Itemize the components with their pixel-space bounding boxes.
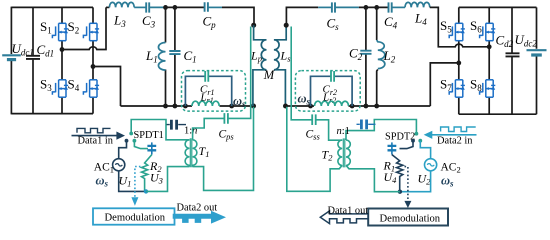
svg-text:T2: T2 bbox=[322, 148, 334, 163]
svg-text:Udc2: Udc2 bbox=[515, 32, 538, 49]
arrow Data2 in bbox=[432, 134, 477, 136]
capacitor modulation right (blue) bbox=[391, 142, 393, 154]
wire: Cr2 loop bbox=[311, 76, 353, 106]
svg-text:L3: L3 bbox=[113, 13, 126, 30]
box Demodulation 1 bbox=[93, 208, 175, 224]
svg-text:SPDT1: SPDT1 bbox=[134, 130, 164, 141]
capacitor Cs bbox=[332, 2, 335, 12]
svg-text:ωs: ωs bbox=[441, 174, 454, 189]
wire: capacitor Cd2 leads bbox=[511, 7, 513, 114]
node: L2 bottom bbox=[374, 104, 379, 109]
svg-text:Data2 in: Data2 in bbox=[437, 135, 473, 146]
wire: T1 secondary top to Cps bbox=[193, 118, 224, 139]
wire: right DC box top rail bbox=[459, 6, 537, 8]
svg-text:S3: S3 bbox=[40, 76, 52, 93]
svg-text:Data1 in: Data1 in bbox=[78, 136, 114, 147]
node: Lp top bbox=[251, 23, 256, 28]
wire: Cp to Lp corner bbox=[208, 6, 222, 8]
node: Ls bottom bbox=[283, 104, 288, 109]
node: SPDT2 contact AC side bbox=[418, 139, 422, 143]
node: R2/bus junction bbox=[144, 189, 148, 193]
svg-text:Demodulation: Demodulation bbox=[380, 213, 441, 224]
svg-text:Cs: Cs bbox=[327, 16, 340, 33]
svg-text:C3: C3 bbox=[142, 13, 156, 30]
capacitor Css bbox=[312, 114, 316, 125]
inductor L2 bbox=[377, 40, 385, 69]
svg-text:S1: S1 bbox=[40, 19, 52, 36]
wire: L2 vertical bbox=[377, 7, 378, 106]
transistor S3 bbox=[52, 80, 68, 97]
arrow Data1 out (outline navy with pulse teeth) bbox=[320, 211, 368, 224]
resistor R2 bbox=[142, 155, 152, 192]
wire: Ls top riser bbox=[286, 7, 318, 25]
capacitor Cd1 bbox=[26, 56, 40, 59]
svg-text:SPDT2: SPDT2 bbox=[385, 131, 415, 142]
wire: Cr1 loop bbox=[185, 76, 231, 106]
transistor S7 bbox=[449, 80, 465, 97]
transformer T2 bbox=[338, 140, 342, 166]
resistor R1 bbox=[392, 155, 403, 192]
wire: L1 vertical bbox=[165, 7, 167, 106]
node: L1 top bbox=[163, 5, 168, 10]
node: SPDT1 throw top bbox=[129, 132, 133, 136]
svg-text:Cd2: Cd2 bbox=[496, 32, 514, 49]
node: C1 bottom bbox=[173, 104, 178, 109]
capacitor C4 bbox=[389, 2, 392, 12]
svg-text:ωs: ωs bbox=[298, 92, 311, 107]
wire: C2 vertical bbox=[365, 7, 367, 106]
inductor Lr1 bbox=[192, 101, 219, 106]
wire: bridge leg 1 (S1/S3) bbox=[61, 7, 63, 113]
inductor L3 bbox=[109, 2, 134, 7]
source AC2 bbox=[425, 159, 437, 171]
battery Udc1 bbox=[2, 54, 21, 56]
svg-text:C1: C1 bbox=[184, 48, 197, 65]
wire: SPDT1 pole net to T1 primary top bbox=[131, 120, 189, 140]
wire: T1 secondary bottom return to Lp bottom bbox=[193, 107, 254, 191]
wire: left DC box bottom rail bbox=[11, 113, 93, 115]
svg-text:S8: S8 bbox=[470, 76, 482, 93]
capacitor Cr1 bbox=[205, 71, 208, 82]
wire: lever to modulation cap bbox=[134, 141, 148, 149]
svg-text:U2: U2 bbox=[418, 172, 432, 187]
svg-text:Lp: Lp bbox=[250, 49, 262, 64]
svg-text:L4: L4 bbox=[414, 11, 427, 28]
dashed box trap 2 bbox=[295, 71, 360, 112]
battery Udc2 bbox=[527, 49, 547, 51]
dashed box trap 1 bbox=[182, 71, 246, 112]
capacitor C1 bbox=[169, 51, 180, 54]
transistor S1 bbox=[52, 23, 68, 40]
node: Ls top bbox=[284, 23, 289, 28]
node: SPDT2 throw top bbox=[415, 132, 419, 136]
svg-text:S7: S7 bbox=[440, 76, 452, 93]
svg-text:U1: U1 bbox=[119, 174, 132, 189]
node: R1/bus junction bbox=[398, 190, 402, 194]
wire: Cps to Lp top tap bbox=[228, 27, 251, 119]
capacitor Cd2 bbox=[506, 53, 520, 56]
wire: AC2 connection bbox=[420, 141, 430, 159]
capacitor Cp bbox=[205, 2, 208, 12]
capacitor modulation left (blue) bbox=[151, 142, 153, 154]
node: right leg2 midpoint bbox=[487, 44, 492, 49]
inductor L4 bbox=[405, 2, 430, 7]
transformer T1 bbox=[185, 140, 189, 167]
wire: bridge output B down to bottom tank rail bbox=[93, 67, 121, 107]
svg-text:S5: S5 bbox=[440, 18, 452, 35]
wire: bottom tank rail bbox=[121, 105, 255, 107]
wire: L3 to C3 bbox=[134, 6, 146, 8]
wire: battery Udc2 leads bbox=[536, 7, 538, 114]
svg-text:C4: C4 bbox=[384, 14, 398, 31]
wire: lever to modulation cap right bbox=[400, 141, 414, 149]
transistor S5 bbox=[449, 23, 465, 40]
wire: T2 left bottom return to Ls bottom bbox=[287, 107, 342, 192]
dotted demod tap left bbox=[135, 167, 141, 198]
svg-text:Data1 out: Data1 out bbox=[328, 205, 369, 216]
wire: Css to Ls top tap bbox=[291, 27, 312, 120]
svg-text:S2: S2 bbox=[68, 19, 80, 36]
wire: right bridge output B to bottom rail bbox=[430, 63, 459, 106]
transistor S6 bbox=[480, 23, 496, 40]
capacitor series blocking right (dark blue) bbox=[357, 123, 376, 125]
svg-text:Css: Css bbox=[306, 129, 321, 142]
wire: to Cs bbox=[318, 6, 331, 8]
wire: bridge leg S6/S8 bbox=[488, 7, 490, 114]
inductor Ls bbox=[274, 25, 286, 106]
capacitor C3 bbox=[146, 2, 149, 12]
node: leg2 midpoint bbox=[91, 64, 96, 69]
svg-text:S6: S6 bbox=[470, 18, 482, 35]
svg-text:ωs: ωs bbox=[96, 174, 109, 189]
svg-text:L2: L2 bbox=[383, 48, 396, 65]
node: L1 bottom bbox=[163, 104, 168, 109]
inductor Lr2 bbox=[315, 101, 349, 106]
wire: bus to T2 return bbox=[346, 165, 400, 191]
svg-text:ωs: ωs bbox=[233, 94, 246, 109]
source AC1 bbox=[113, 159, 125, 171]
wire: bridge leg S5/S7 bbox=[458, 7, 460, 114]
inductor L1 bbox=[158, 43, 165, 71]
svg-text:Ls: Ls bbox=[280, 49, 292, 64]
node: SPDT1 contact R side bbox=[133, 139, 137, 143]
waveform data2 in bbox=[441, 127, 476, 132]
transistor S8 bbox=[480, 80, 496, 97]
wire: right DC box bottom rail bbox=[459, 113, 537, 115]
arrow Data2 out (solid light blue with pulse teeth) bbox=[173, 211, 226, 224]
inductor Lp bbox=[253, 25, 267, 106]
wire: battery Udc1 leads bbox=[10, 7, 12, 115]
node: trap2 right bbox=[350, 104, 355, 109]
node: C1 top bbox=[173, 5, 178, 10]
svg-text:T1: T1 bbox=[199, 144, 210, 159]
wire: C1 vertical bbox=[174, 7, 176, 106]
wire: top rail from riser to L3 bbox=[106, 6, 109, 8]
node: right leg1 midpoint bbox=[456, 61, 461, 66]
transistor S2 bbox=[83, 23, 99, 40]
capacitor Cps bbox=[224, 113, 228, 124]
wire: Cs to nodes bbox=[335, 6, 359, 8]
wire: T2 left top to Css bbox=[316, 120, 342, 140]
wire: AC1 connection bbox=[119, 141, 127, 159]
svg-text:S4: S4 bbox=[68, 76, 80, 93]
node: trap2 left bbox=[308, 104, 313, 109]
wire: bridge output A with hop over leg2, up to top tank rail bbox=[62, 7, 106, 49]
node: SPDT1 contact AC side bbox=[125, 139, 129, 143]
node: trap left bbox=[183, 104, 188, 109]
svg-text:M: M bbox=[263, 68, 275, 82]
node: C2 top bbox=[364, 5, 369, 10]
wire: left DC box top rail bbox=[11, 6, 93, 8]
wire: C3 to node, node to Cp bbox=[149, 6, 166, 8]
node: trap right bbox=[229, 104, 234, 109]
node: leg1 midpoint bbox=[60, 47, 65, 52]
wire: capacitor Cd1 leads bbox=[32, 7, 34, 113]
wire: right bottom tank rail bbox=[286, 105, 430, 107]
dotted demod tap right bbox=[405, 167, 408, 201]
svg-text:C2: C2 bbox=[349, 46, 363, 63]
capacitor Cr2 bbox=[331, 71, 334, 82]
node: L2 top bbox=[374, 5, 379, 10]
svg-text:Demodulation: Demodulation bbox=[105, 213, 166, 224]
transistor S4 bbox=[83, 80, 99, 97]
wire: AC1 bottom to bus bbox=[119, 171, 146, 192]
capacitor series blocking left (dark) bbox=[167, 124, 187, 126]
node: C2 bottom bbox=[364, 104, 369, 109]
wire: L4 to right bridge output A with hop bbox=[430, 7, 489, 46]
wire: bridge leg 2 (S2/S4) bbox=[92, 7, 94, 113]
wire: C4 to L4 bbox=[392, 6, 405, 8]
wire: AC2 bottom to bus bbox=[400, 171, 431, 192]
waveform data1 in bbox=[77, 128, 111, 132]
svg-text:Cd1: Cd1 bbox=[37, 42, 55, 59]
svg-text:Cps: Cps bbox=[219, 129, 235, 142]
node: Lp bottom bbox=[251, 104, 256, 109]
box Demodulation 2 bbox=[368, 209, 448, 226]
arrow Data1 in bbox=[72, 135, 117, 137]
wire: SPDT2 pole net to T2 top bbox=[346, 120, 416, 141]
svg-text:L1: L1 bbox=[145, 48, 158, 65]
node: SPDT2 contact R side bbox=[411, 139, 415, 143]
capacitor C2 bbox=[360, 51, 371, 54]
svg-text:n:1: n:1 bbox=[337, 126, 350, 137]
svg-text:Cp: Cp bbox=[203, 14, 217, 31]
wire: bus to T1 return bbox=[146, 167, 189, 192]
